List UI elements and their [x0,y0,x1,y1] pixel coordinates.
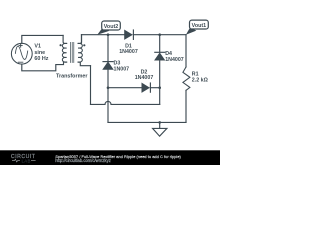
svg-text:1N4007: 1N4007 [165,57,184,63]
svg-text:Transformer: Transformer [56,73,88,79]
wire D1 cathode to D4 node [133,34,159,36]
wire D3 anode down to DC- node [107,69,109,88]
svg-text:60 Hz: 60 Hz [34,56,48,62]
wire V1 top to transformer primary [22,35,63,43]
wire top rail node Vout2 segment [82,34,125,36]
wire DC- vertical down [107,88,109,123]
node DC- junction [107,86,110,89]
wire D2 anode segment [108,87,142,89]
wire ground rail [108,121,186,123]
wire D3 cathode stub [107,35,109,62]
wire AC2 bottom run with hop over DC- wire [91,101,160,104]
wire R1 bottom to ground rail [185,90,187,122]
svg-text:sine: sine [34,50,45,56]
svg-text:Vout1: Vout1 [192,23,206,29]
diode D2 [142,83,150,92]
ground symbol [153,122,167,136]
resistor R1 [183,67,190,90]
svg-text:http://circuitlab.com/c/wm2kyz: http://circuitlab.com/c/wm2kyz [55,158,111,163]
wire AC2 vertical to corner [159,88,161,105]
svg-text:1N4007: 1N4007 [119,49,138,55]
wire secondary bottom down [90,66,92,105]
wire D4 cathode stub [159,35,161,53]
R1 label [192,71,209,83]
svg-text:1N007: 1N007 [114,66,130,72]
voltage source V1 [11,43,32,64]
svg-text:LAB: LAB [22,159,31,164]
svg-text:2.2 kΩ: 2.2 kΩ [192,77,209,83]
node AC2 junction at D2 cathode [158,86,161,89]
diode D4 [155,52,165,60]
V1 value label [34,43,48,62]
D4 label [165,51,184,63]
transformer T1 [60,35,91,66]
node Vout2 junction [107,33,110,36]
footer logo CircuitLab [11,154,36,164]
D2 label [135,69,154,81]
node DC+ junction [158,33,161,36]
diode D1 [125,30,134,39]
node ground junction [158,121,161,124]
wire top rail to right corner [160,34,186,36]
wire V1 bottom loop to transformer primary bottom [22,62,67,71]
wire secondary top to top rail [81,35,83,43]
svg-text:V1: V1 [34,43,41,49]
probe flag Vout1 [186,20,208,35]
svg-text:1N4007: 1N4007 [135,75,154,81]
wire D2 cathode to AC2 node [150,87,159,89]
wire right rail to R1 [185,35,187,67]
D1 label [119,43,138,55]
diode D3 [103,62,113,70]
wire D4 anode down [159,60,161,88]
probe flag Vout2 [97,21,120,35]
svg-text:Vout2: Vout2 [104,24,118,30]
D3 label [114,61,130,73]
footer bar [0,150,220,165]
